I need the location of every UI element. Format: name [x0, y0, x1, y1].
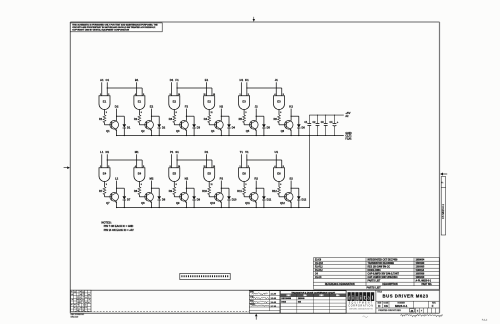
- border frame: [70, 21, 439, 23]
- svg-text:M1: M1: [135, 150, 139, 154]
- gate E5 (left section): [169, 168, 180, 182]
- svg-text:12: 12: [203, 94, 205, 96]
- wire Q5 emitter to ground rail: [255, 130, 257, 136]
- gate E3 (right section): [274, 96, 285, 110]
- wire enable bus row2 pair3: [247, 159, 282, 161]
- svg-text:R1-R12: R1-R12: [315, 266, 323, 268]
- svg-text:R7: R7: [99, 189, 103, 193]
- svg-text:1: 1: [239, 94, 240, 96]
- svg-text:E4: E4: [138, 171, 142, 175]
- svg-text:9: 9: [170, 94, 171, 96]
- fold mark arrow right: [443, 173, 447, 175]
- wire input stubs gate E5.b3: [205, 154, 207, 168]
- svg-text:2: 2: [108, 94, 109, 96]
- svg-text:K2: K2: [289, 105, 293, 109]
- resistor R1 100 ohm: [103, 115, 106, 123]
- wire input stubs gate E6.b5: [275, 154, 277, 168]
- wire Q1 emitter to ground rail: [116, 130, 118, 136]
- wire Q4 emitter to ground rail: [220, 130, 222, 136]
- svg-text:J2: J2: [255, 105, 259, 109]
- transistor Q6 DEC3009B: [284, 121, 293, 130]
- diode D1 D664: [123, 124, 127, 128]
- transistor Q1 DEC3009B: [110, 121, 119, 130]
- wire Q10 collector to pin P2: [220, 181, 222, 193]
- wire gate E5 output to R9: [173, 182, 175, 188]
- wire R7 to Q7 base: [104, 195, 106, 197]
- svg-text:l: l: [371, 295, 373, 301]
- transistor Q4 DEC3009B: [215, 121, 224, 130]
- svg-text:R5: R5: [239, 117, 243, 121]
- handwritten mark below chart: [363, 316, 368, 317]
- svg-text:E4: E4: [103, 171, 107, 175]
- wire R10 to Q10 base: [208, 195, 210, 197]
- wire Q4 collector to pin H2: [220, 109, 222, 121]
- svg-text:E1: E1: [138, 99, 142, 103]
- module edge connector outline: [180, 273, 230, 279]
- svg-text:H2: H2: [220, 105, 224, 109]
- wire Q7 collector to pin L2: [116, 181, 118, 193]
- svg-text:L2: L2: [115, 177, 119, 181]
- svg-text:D12: D12: [302, 198, 307, 202]
- svg-text:C1-C3: C1-C3: [315, 277, 322, 279]
- svg-text:P-1-b: P-1-b: [482, 319, 488, 321]
- diode D9 D664: [192, 196, 196, 200]
- svg-text:g: g: [356, 295, 358, 301]
- svg-text:INTEGRATED CKT DEC7439: INTEGRATED CKT DEC7439: [368, 258, 399, 261]
- svg-text:CS M623-0-1: CS M623-0-1: [442, 203, 445, 218]
- svg-text:D9: D9: [197, 198, 201, 202]
- resistor R4 100 ohm: [208, 115, 211, 123]
- gate E5 (right section): [204, 168, 215, 182]
- wire Q8 collector to pin M2: [151, 181, 153, 193]
- svg-text:R3: R3: [169, 117, 173, 121]
- wire input stubs gate E1.a1: [136, 82, 138, 96]
- wire Q12 collector to pin S2: [290, 181, 292, 193]
- svg-text:i: i: [352, 295, 354, 301]
- wire collector to diode D11: [256, 187, 264, 189]
- DEC digital logo: [345, 291, 347, 314]
- svg-text:3: 3: [245, 184, 246, 186]
- wire input stubs gate E4.b0: [101, 154, 103, 168]
- svg-text:6: 6: [141, 112, 142, 114]
- wire input stubs gate E6.b4: [240, 154, 242, 168]
- svg-text:PARTS LIST: PARTS LIST: [367, 286, 382, 289]
- svg-text:6: 6: [141, 184, 142, 186]
- gate E1 (left section): [99, 96, 110, 110]
- svg-text:Q3: Q3: [176, 129, 180, 133]
- gate E2 (right section): [204, 96, 215, 110]
- diode D5 D664: [262, 124, 266, 128]
- wire gate E3 output to R6: [278, 110, 280, 116]
- dashed fold line: [75, 310, 249, 312]
- svg-text:2: 2: [248, 94, 249, 96]
- wire gate E6 output to R12: [278, 182, 280, 188]
- svg-text:V1: V1: [245, 150, 249, 154]
- svg-text:+5V: +5V: [345, 111, 350, 115]
- svg-text:S2: S2: [289, 177, 293, 181]
- svg-text:2: 2: [108, 166, 109, 168]
- wire Q3 collector to pin F2: [185, 109, 187, 121]
- wire enable bus row2 pair2: [177, 159, 212, 161]
- svg-text:P2: P2: [220, 177, 224, 181]
- transistor Q10 DEC3009B: [215, 193, 224, 202]
- svg-text:PART NO.: PART NO.: [421, 283, 432, 286]
- svg-text:DRA 110: DRA 110: [71, 315, 79, 318]
- svg-text:2N3009: 2N3009: [298, 298, 305, 300]
- wire gate E2 output to R3: [173, 110, 175, 116]
- transistor Q2 DEC3009B: [145, 121, 154, 130]
- svg-text:BUS DRIVER M623: BUS DRIVER M623: [383, 294, 429, 299]
- svg-text:6: 6: [280, 112, 281, 114]
- svg-text:D2: D2: [115, 105, 119, 109]
- drawing index table (bottom left): [71, 290, 91, 311]
- svg-text:Q5: Q5: [246, 129, 250, 133]
- svg-text:T1: T1: [240, 150, 244, 154]
- wire enable bus row1 pair1: [107, 87, 142, 89]
- fold mark arrow left: [64, 167, 68, 169]
- svg-text:CAP .01MFD 100V 20% DISC: CAP .01MFD 100V 20% DISC: [368, 276, 399, 279]
- svg-text:2-4-69: 2-4-69: [271, 293, 276, 296]
- svg-text:GND: GND: [345, 131, 351, 135]
- wire R5 to Q5 base: [243, 123, 245, 125]
- wire Q11 collector to pin R2: [255, 181, 257, 193]
- handwritten note bottom right: [401, 314, 443, 316]
- wire collector to diode D6: [291, 115, 299, 117]
- svg-text:E3: E3: [277, 99, 281, 103]
- diode D10 D664: [227, 196, 231, 200]
- wire Q2 emitter to ground rail: [151, 130, 153, 136]
- resistor R3 100 ohm: [173, 115, 176, 123]
- svg-text:F2: F2: [185, 105, 189, 109]
- svg-text:Q1-Q12: Q1-Q12: [315, 263, 324, 265]
- wire collector to diode D8: [152, 187, 160, 189]
- svg-text:CAP 6.8MFD 35V 10% S.TANT: CAP 6.8MFD 35V 10% S.TANT: [368, 272, 400, 275]
- svg-text:11: 11: [211, 112, 213, 114]
- resistor R12 100 ohm: [278, 187, 281, 195]
- svg-text:R9: R9: [169, 189, 173, 193]
- wire R12 to Q12 base: [278, 195, 280, 197]
- wire gate E4 output to R7: [104, 182, 106, 188]
- wire collector to diode D5: [256, 115, 264, 117]
- svg-text:9: 9: [170, 166, 171, 168]
- wire input stubs gate E1.a0: [101, 82, 103, 96]
- wire input stubs gate E2.a2: [171, 82, 173, 96]
- svg-text:12: 12: [203, 166, 205, 168]
- copyright disclaimer box: [70, 23, 162, 32]
- wire input stubs gate E3.a4: [240, 82, 242, 96]
- wire Q7 emitter to ground rail: [116, 202, 118, 208]
- svg-text:E1: E1: [205, 78, 209, 82]
- svg-text:R2: R2: [254, 177, 258, 181]
- diode D2 D664: [157, 124, 161, 128]
- wire enable bus row1 pair3: [247, 87, 282, 89]
- svg-text:E5: E5: [173, 171, 177, 175]
- capacitor C1: [308, 115, 310, 123]
- svg-text:i: i: [360, 295, 362, 301]
- svg-text:R11: R11: [237, 189, 242, 193]
- wire collector to diode D2: [152, 115, 160, 117]
- svg-text:D1: D1: [127, 126, 131, 130]
- wire collector to diode D4: [221, 115, 229, 117]
- wire input stubs gate E3.a5: [275, 82, 277, 96]
- svg-text:6: 6: [280, 184, 281, 186]
- svg-text:1: 1: [239, 166, 240, 168]
- resistor R10 100 ohm: [208, 187, 211, 195]
- wire Q2 collector to pin E2: [151, 109, 153, 121]
- svg-text:D1-D12: D1-D12: [315, 270, 323, 272]
- svg-text:M2: M2: [150, 177, 154, 181]
- svg-text:E1: E1: [103, 99, 107, 103]
- svg-text:3: 3: [106, 112, 107, 114]
- wire ground interconnect: [308, 136, 310, 208]
- fold mark arrow top: [253, 17, 255, 19]
- diode D11 D664: [262, 196, 266, 200]
- resistor R2 100 ohm: [138, 115, 141, 123]
- resistor R7 100 ohm: [103, 187, 106, 195]
- svg-text:PIN 14 ON EACH IC = +5V: PIN 14 ON EACH IC = +5V: [104, 229, 134, 232]
- svg-text:Q1: Q1: [106, 129, 110, 133]
- svg-text:1001610: 1001610: [416, 277, 425, 279]
- svg-text:L1: L1: [100, 150, 104, 154]
- wire input stubs gate E4.b1: [136, 154, 138, 168]
- diode D8 D664: [157, 196, 161, 200]
- svg-text:COPYRIGHT 1969 BY DIGITAL EQUI: COPYRIGHT 1969 BY DIGITAL EQUIPMENT CORP…: [72, 28, 129, 31]
- svg-text:PIN 7 ON EACH IC = GND: PIN 7 ON EACH IC = GND: [104, 225, 134, 228]
- svg-text:R8: R8: [134, 189, 138, 193]
- wire input stubs gate E5.b2: [171, 154, 173, 168]
- transistor Q12 DEC3009B: [284, 193, 293, 202]
- svg-text:8: 8: [176, 112, 177, 114]
- wire Q6 emitter to ground rail: [290, 130, 292, 136]
- svg-text:13: 13: [213, 94, 215, 96]
- svg-text:DESCRIPTION: DESCRIPTION: [382, 284, 398, 286]
- svg-text:DEC3009B: DEC3009B: [281, 298, 291, 300]
- svg-text:2-7-69: 2-7-69: [271, 306, 276, 308]
- fold mark arrow bottom: [255, 314, 258, 317]
- svg-text:D6: D6: [302, 126, 306, 130]
- wire R2 to Q2 base: [138, 123, 140, 125]
- svg-text:F1: F1: [175, 78, 179, 82]
- svg-text:PARTS LIST: PARTS LIST: [368, 279, 382, 282]
- svg-text:1005306: 1005306: [416, 273, 425, 275]
- transistor Q8 DEC3009B: [145, 193, 154, 202]
- svg-text:F1,N1: F1,N1: [345, 138, 352, 140]
- svg-text:R12: R12: [272, 189, 277, 193]
- svg-text:2-6-69: 2-6-69: [271, 302, 276, 304]
- wire gate E4 output to R8: [138, 182, 140, 188]
- svg-text:E2: E2: [150, 105, 154, 109]
- wire collector to diode D7: [117, 187, 125, 189]
- signature block: [249, 291, 280, 314]
- svg-text:2-5-69: 2-5-69: [271, 298, 276, 300]
- wire collector to diode D10: [221, 187, 229, 189]
- wire collector to diode D1: [117, 115, 125, 117]
- svg-text:8: 8: [176, 184, 177, 186]
- svg-text:E6: E6: [242, 171, 246, 175]
- wire Q9 collector to pin N2: [185, 181, 187, 193]
- svg-text:A1: A1: [100, 78, 104, 82]
- svg-text:Q4: Q4: [211, 129, 215, 133]
- svg-text:P1: P1: [170, 150, 174, 154]
- svg-text:B1: B1: [135, 78, 139, 82]
- svg-text:Q7: Q7: [106, 201, 110, 205]
- wire R11 to Q11 base: [243, 195, 245, 197]
- svg-text:A-PL-M623-0-1: A-PL-M623-0-1: [416, 279, 432, 282]
- svg-text:K1: K1: [245, 78, 249, 82]
- svg-text:J1: J1: [275, 78, 279, 82]
- svg-text:D5: D5: [267, 126, 271, 130]
- wire gate E1 output to R2: [138, 110, 140, 116]
- svg-text:DIODE D664: DIODE D664: [368, 269, 382, 272]
- gate E1 (right section): [134, 96, 145, 110]
- svg-text:H1: H1: [240, 78, 244, 82]
- size code number rev row: [376, 300, 440, 302]
- wire gate E6 output to R11: [243, 182, 245, 188]
- svg-text:5: 5: [283, 166, 284, 168]
- gate E6 (right section): [274, 168, 285, 182]
- svg-text:10: 10: [178, 166, 180, 168]
- capacitor C2: [317, 115, 319, 123]
- svg-text:Q9: Q9: [176, 201, 180, 205]
- svg-text:1503100: 1503100: [416, 263, 425, 265]
- wire gate E1 output to R1: [104, 110, 106, 116]
- svg-text:3: 3: [245, 112, 246, 114]
- resistor R8 100 ohm: [138, 187, 141, 195]
- resistor R9 100 ohm: [173, 187, 176, 195]
- wire R8 to Q8 base: [138, 195, 140, 197]
- wire enable bus row2 pair1: [107, 159, 142, 161]
- svg-text:D1: D1: [170, 78, 174, 82]
- wire Q5 collector to pin J2: [255, 109, 257, 121]
- svg-text:C2,T1: C2,T1: [345, 136, 352, 138]
- svg-text:11: 11: [211, 184, 213, 186]
- wire Q11 emitter to ground rail: [255, 202, 257, 208]
- microfilm edge label: [441, 177, 445, 236]
- wire collector to diode D12: [291, 187, 299, 189]
- gate E4 (left section): [99, 168, 110, 182]
- wire R6 to Q6 base: [278, 123, 280, 125]
- svg-text:1909004: 1909004: [416, 258, 425, 261]
- svg-text:RES 100 1/4W 5% CC: RES 100 1/4W 5% CC: [368, 265, 391, 268]
- svg-text:1: 1: [100, 94, 101, 96]
- svg-text:N1: N1: [105, 150, 109, 154]
- svg-text:D4: D4: [232, 126, 236, 130]
- svg-text:E2: E2: [173, 99, 177, 103]
- svg-text:1100114: 1100114: [416, 269, 425, 272]
- printed circuit rev row: [376, 307, 440, 309]
- wire R4 to Q4 base: [208, 123, 210, 125]
- svg-text:Q2: Q2: [141, 129, 145, 133]
- wire gate E5 output to R10: [208, 182, 210, 188]
- svg-text:U1: U1: [274, 150, 278, 154]
- svg-text:E6: E6: [277, 171, 281, 175]
- svg-text:1300305: 1300305: [416, 266, 425, 268]
- svg-text:D11: D11: [267, 198, 272, 202]
- svg-text:2: 2: [248, 166, 249, 168]
- svg-text:PRINTED CIRCUIT REV.: PRINTED CIRCUIT REV.: [378, 310, 401, 312]
- svg-text:5: 5: [143, 94, 144, 96]
- svg-text:R2: R2: [134, 117, 138, 121]
- svg-text:R6: R6: [274, 117, 278, 121]
- diode D3 D664: [192, 124, 196, 128]
- diode D12 D664: [297, 196, 301, 200]
- svg-text:TRANSISTOR DEC3009B: TRANSISTOR DEC3009B: [368, 262, 395, 265]
- svg-text:5: 5: [143, 166, 144, 168]
- transistor Q9 DEC3009B: [180, 193, 189, 202]
- wire gate E2 output to R4: [208, 110, 210, 116]
- resistor R5 100 ohm: [243, 115, 246, 123]
- svg-text:3: 3: [106, 184, 107, 186]
- transistor Q7 DEC3009B: [110, 193, 119, 202]
- svg-text:Q10: Q10: [210, 201, 215, 205]
- svg-text:S1: S1: [175, 150, 179, 154]
- svg-text:C1: C1: [105, 78, 109, 82]
- title strip top line: [70, 289, 439, 291]
- svg-text:Q12: Q12: [280, 201, 285, 205]
- svg-text:Q11: Q11: [245, 201, 250, 205]
- wire R3 to Q3 base: [173, 123, 175, 125]
- wire Q12 emitter to ground rail: [290, 202, 292, 208]
- svg-text:d: d: [348, 295, 350, 301]
- svg-text:D10: D10: [232, 198, 237, 202]
- resistor R11 100 ohm: [243, 187, 246, 195]
- svg-text:D8: D8: [162, 198, 166, 202]
- svg-text:R4: R4: [204, 117, 208, 121]
- wire collector to diode D3: [186, 115, 194, 117]
- gate E6 (left section): [239, 168, 250, 182]
- svg-text:E1-E6: E1-E6: [315, 259, 322, 261]
- wire Q1 collector to pin D2: [116, 109, 118, 121]
- transistor Q5 DEC3009B: [250, 121, 259, 130]
- svg-text:R1: R1: [99, 117, 103, 121]
- resistor R6 100 ohm: [278, 115, 281, 123]
- wire Q8 emitter to ground rail: [151, 202, 153, 208]
- svg-text:1: 1: [100, 166, 101, 168]
- svg-text:E3: E3: [242, 99, 246, 103]
- svg-text:CORPORATION: CORPORATION: [348, 305, 373, 308]
- svg-text:D3: D3: [197, 126, 201, 130]
- svg-text:D7: D7: [127, 198, 131, 202]
- transistor and diode conversion chart: [280, 291, 346, 314]
- svg-text:D2: D2: [162, 126, 166, 130]
- svg-text:M623-0-1: M623-0-1: [395, 304, 408, 308]
- svg-text:E5: E5: [207, 171, 211, 175]
- svg-text:F: F: [432, 304, 434, 308]
- svg-text:CS: CS: [384, 304, 388, 308]
- svg-text:NOTES:: NOTES:: [101, 221, 111, 225]
- wire input stubs gate E2.a3: [205, 82, 207, 96]
- gate E2 (left section): [169, 96, 180, 110]
- wire enable bus row1 pair2: [177, 87, 212, 89]
- wire collector to diode D9: [186, 187, 194, 189]
- svg-text:E2: E2: [207, 99, 211, 103]
- svg-text:EQUIPMENT: EQUIPMENT: [349, 303, 374, 305]
- wire Q3 emitter to ground rail: [185, 130, 187, 136]
- diode D6 D664: [297, 124, 301, 128]
- diode D4 D664: [227, 124, 231, 128]
- gate E4 (right section): [134, 168, 145, 182]
- ground rail row 1: [116, 135, 344, 137]
- svg-text:R10: R10: [202, 189, 207, 193]
- svg-text:13: 13: [213, 166, 215, 168]
- transistor Q11 DEC3009B: [250, 193, 259, 202]
- capacitor C3: [325, 115, 327, 123]
- transistor Q3 DEC3009B: [180, 121, 189, 130]
- wire Q6 collector to pin K2: [290, 109, 292, 121]
- +5V rail: [309, 114, 344, 116]
- svg-text:R1: R1: [205, 150, 209, 154]
- gate E3 (left section): [239, 96, 250, 110]
